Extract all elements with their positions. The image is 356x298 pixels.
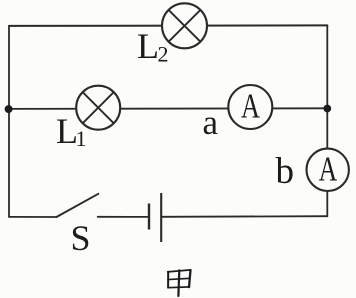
wire right side lower [326,192,328,217]
label L1 [56,111,87,151]
svg-text:L: L [137,26,159,66]
battery (cell) [149,193,161,242]
ammeter A (node b) [307,149,349,191]
wire left side [8,26,10,217]
junction right [323,105,331,113]
lamp L2 [162,3,207,48]
wire middle branch [9,107,327,110]
svg-text:A: A [319,149,338,188]
wire battery to bottom right [162,215,328,218]
lamp L1 [76,86,120,130]
wire right side upper [326,26,328,148]
svg-text:1: 1 [76,126,87,151]
wire switch contact to battery [98,216,148,218]
label jia (Chinese character) [168,270,191,296]
svg-text:S: S [71,218,91,258]
junction left [5,105,13,113]
wire top side [9,24,327,27]
label L2 [137,26,169,67]
switch S [57,194,99,217]
svg-text:2: 2 [158,42,169,67]
ammeter A (node a) [228,85,272,129]
svg-text:a: a [203,103,219,142]
wire bottom left to switch [9,216,57,218]
svg-text:A: A [241,87,261,126]
svg-text:b: b [276,151,295,192]
